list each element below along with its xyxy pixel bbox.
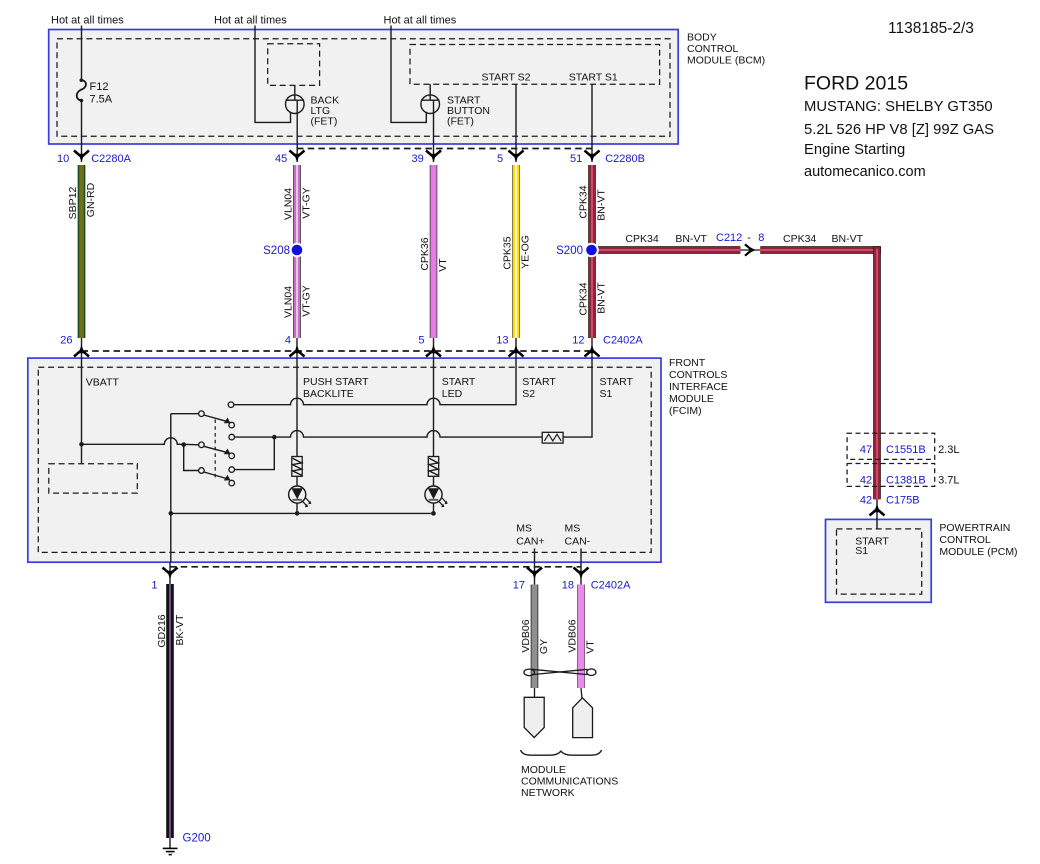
wire resistor to START S1 pin [563,358,592,437]
wire fuse output to pin 10 [81,101,83,162]
contact L-branch circle [229,467,235,473]
BCM START S2/S1 inner dashed box [410,45,660,85]
svg-text:1: 1 [151,580,157,592]
wire LED return bus [171,512,434,514]
pin 18 C2402A [562,562,631,591]
wire START S2 inside BCM [515,84,517,162]
svg-text:F12: F12 [90,81,109,93]
contact S2 target circle [229,453,235,459]
svg-text:C2402A: C2402A [603,335,643,347]
wire hot feed 2 drop [255,26,291,123]
svg-text:Hot at all times: Hot at all times [214,15,287,27]
wire CPK34 BN-VT vertical right side to PCM [873,246,881,499]
svg-text:8: 8 [758,232,764,244]
svg-text:26: 26 [60,335,72,347]
svg-text:automecanico.com: automecanico.com [804,164,926,180]
svg-text:GY: GY [538,639,550,654]
pin 5 FCIM [418,335,441,359]
svg-text:(FET): (FET) [447,115,474,127]
BACK LTG inner dashed box [268,44,320,86]
svg-text:S1: S1 [855,545,868,557]
pin 4 [285,335,305,359]
svg-text:INTERFACE: INTERFACE [669,381,728,393]
svg-text:VT: VT [585,640,597,654]
svg-text:START S1: START S1 [569,72,618,84]
svg-text:4: 4 [285,335,291,347]
svg-text:BN-VT: BN-VT [596,189,608,221]
svg-text:BODY: BODY [687,32,717,44]
svg-text:18: 18 [562,580,574,592]
svg-text:CAN-: CAN- [565,535,591,547]
terminal CAN- [573,698,593,738]
svg-text:42: 42 [860,475,872,487]
wire VDB06 GY [531,585,539,689]
pin 26 [60,335,89,359]
svg-text:13: 13 [496,335,508,347]
connector dashed line C2280B [297,148,592,150]
pin 42 C175B arrow into PCM [870,499,885,529]
wire line A to START S2 [234,358,516,405]
module PCM box [826,519,932,602]
LED BACKLITE [289,486,312,507]
pin 10 C2280A [57,151,132,166]
wire VBATT horizontal to switch pivots [82,438,199,445]
svg-text:VDB06: VDB06 [567,619,579,652]
label START S1 inside PCM [855,536,889,558]
switch gang dashed link [214,419,216,480]
label MS CAN- [565,522,591,547]
svg-text:42: 42 [860,495,872,507]
connector C212 pin 8 [716,232,764,256]
wire SBP12 GN-RD [78,165,86,338]
label START S2 FCIM [522,376,556,400]
terminal CAN+ [524,697,544,737]
svg-text:MODULE: MODULE [669,393,714,405]
label BACK LTG (FET) [311,95,340,128]
wire switch 1 feed horizontal [171,413,199,415]
connector dashed box C1551B 2.3L [847,433,935,459]
svg-text:POWERTRAIN: POWERTRAIN [939,522,1010,534]
svg-text:S2: S2 [522,388,535,400]
svg-text:CPK34: CPK34 [783,233,816,245]
svg-text:MODULE (PCM): MODULE (PCM) [939,546,1017,558]
pin 39 [412,151,442,166]
module FCIM box [28,358,661,562]
svg-text:47: 47 [860,444,872,456]
resistor START LED [428,457,438,477]
svg-text:COMMUNICATIONS: COMMUNICATIONS [521,776,618,788]
wire resistor to LED START [433,476,435,513]
svg-text:MUSTANG: SHELBY GT350: MUSTANG: SHELBY GT350 [804,99,993,115]
svg-text:7.5A: 7.5A [90,94,113,106]
svg-text:2.3L: 2.3L [938,444,959,456]
svg-text:45: 45 [275,153,287,165]
svg-text:START S2: START S2 [482,72,531,84]
wire CPK36 VT [430,165,438,338]
svg-text:MODULE (BCM): MODULE (BCM) [687,55,765,67]
connector dashed line C2402A bottom [170,566,581,568]
pin 1 [151,562,177,591]
wire pin1 column with switch 1 feed [170,414,172,563]
svg-text:5: 5 [418,335,424,347]
pin 12 C2402A [572,335,643,359]
wire PUSH START BACKLITE vertical [296,358,298,457]
wire START S1 inside BCM [591,84,593,162]
svg-text:C2402A: C2402A [591,580,631,592]
svg-text:NETWORK: NETWORK [521,787,575,799]
contact S1 target circle [229,422,235,428]
switch S1 blade [204,415,231,423]
node LED BACKLITE to bus [295,511,300,516]
wire stub CAN- to terminal [581,688,582,699]
svg-text:VT: VT [437,258,449,272]
label MODULE COMMUNICATIONS NETWORK [521,764,618,799]
ground G200 symbol [163,848,178,854]
wire stub CAN+ to terminal [534,688,536,697]
svg-text:CPK34: CPK34 [625,233,658,245]
svg-text:CPK36: CPK36 [419,237,431,270]
label MS CAN+ [516,522,544,547]
label PUSH START BACKLITE [303,376,369,400]
svg-text:39: 39 [412,153,424,165]
svg-text:C2280A: C2280A [91,153,131,165]
label F12 7.5A [90,81,113,105]
svg-text:BN-VT: BN-VT [596,282,608,314]
svg-text:S208: S208 [263,245,290,257]
svg-text:MODULE: MODULE [521,764,566,776]
svg-text:51: 51 [570,153,582,165]
label FRONT CONTROLS INTERFACE MODULE (FCIM) [669,357,728,417]
wire MS CAN- drop [580,549,582,563]
label BODY CONTROL MODULE (BCM) [687,32,765,67]
switch S2 pivot contact [199,442,205,448]
svg-text:MS: MS [516,522,532,534]
svg-text:5: 5 [497,153,503,165]
svg-text:YE-OG: YE-OG [520,235,532,269]
svg-text:MS: MS [565,522,581,534]
svg-text:BN-VT: BN-VT [675,233,707,245]
wire VBATT vertical [81,358,83,464]
svg-text:CONTROL: CONTROL [687,43,738,55]
svg-text:G200: G200 [183,833,211,845]
pin 13 [496,335,523,359]
svg-text:Engine Starting: Engine Starting [804,142,905,158]
svg-text:10: 10 [57,153,69,165]
svg-text:VT-GY: VT-GY [301,285,313,317]
pin 45 [275,151,305,166]
pin 5 [497,151,524,166]
transistor BACK LTG FET [286,85,305,162]
svg-text:VT-GY: VT-GY [301,187,313,219]
wire line B to resistor and START S1 [235,431,543,438]
label POWERTRAIN CONTROL MODULE (PCM) [939,522,1017,558]
resistor START S1 horizontal [542,432,563,443]
svg-text:(FET): (FET) [311,115,338,127]
transistor START BUTTON FET [421,84,440,162]
svg-text:VDB06: VDB06 [520,619,532,652]
svg-text:START: START [442,376,476,388]
svg-text:(FCIM): (FCIM) [669,405,702,417]
wire CPK34 BN-VT vertical upper [588,165,596,338]
brace module communications network [521,750,602,755]
svg-text:GN-RD: GN-RD [85,182,97,217]
module BCM box [49,30,679,145]
svg-text:Hot at all times: Hot at all times [384,15,457,27]
svg-text:FORD 2015: FORD 2015 [804,72,908,94]
LED START [425,486,448,507]
svg-text:17: 17 [513,580,525,592]
wire CPK35 YE-OG [512,165,520,338]
svg-text:PUSH START: PUSH START [303,376,369,388]
svg-text:BK-VT: BK-VT [174,614,186,646]
wire hot feed 1 drop [81,26,83,81]
wire resistor to LED BACKLITE [296,476,298,513]
pin 47 C1551B labels [860,444,960,456]
node LED START to bus [431,511,436,516]
svg-text:BACKLITE: BACKLITE [303,388,354,400]
wire to switch 3 pivot [184,445,199,471]
wire VLN04 VT-GY [293,165,301,338]
wire VDB06 VT [577,585,585,689]
svg-text:START: START [600,376,634,388]
wire L-branch [235,437,275,470]
svg-text:-: - [747,232,751,244]
node bus to pin1 column [169,511,174,516]
svg-text:GD216: GD216 [156,614,168,647]
svg-text:S1: S1 [600,388,613,400]
svg-text:S200: S200 [556,245,583,257]
pin 42 C1381B labels [860,475,960,487]
fuse F12 [77,80,86,100]
pin 42 C175B labels [860,495,920,507]
svg-text:VLN04: VLN04 [283,286,295,318]
connector dashed box C1381B 3.7L [847,464,935,487]
node S200 [556,243,599,258]
label START S1 FCIM [600,376,634,400]
switch S1 pivot contact [199,411,205,417]
wire hot feed 3 drop [391,26,426,123]
pin 51 C2280B [570,151,645,166]
contact line B circle [229,434,235,440]
svg-text:CPK34: CPK34 [578,282,590,315]
contact line A circle [228,402,234,408]
svg-text:C175B: C175B [886,495,920,507]
wire CPK34 BN-VT horizontal segment A [592,246,740,254]
twisted pair symbol [524,669,596,676]
svg-text:CONTROL: CONTROL [939,534,990,546]
switch S3 blade [204,472,231,481]
wire START LED vertical [433,358,435,457]
pin 17 [513,562,542,591]
svg-text:BN-VT: BN-VT [832,233,864,245]
FCIM small dashed box [49,464,138,493]
node S208 [263,243,304,258]
svg-text:C1551B: C1551B [886,444,926,456]
svg-text:SBP12: SBP12 [67,187,79,220]
connector dashed line C2402A top [82,350,593,352]
wire MS CAN+ drop [534,549,536,563]
contact S3 target circle [229,480,235,486]
switch S3 pivot contact [199,468,205,474]
node VBATT junction [79,442,84,447]
svg-text:5.2L 526 HP V8 [Z] 99Z GAS: 5.2L 526 HP V8 [Z] 99Z GAS [804,122,994,138]
svg-text:VLN04: VLN04 [283,188,295,220]
svg-text:CONTROLS: CONTROLS [669,369,727,381]
label START BUTTON (FET) [447,95,490,128]
svg-text:START: START [522,376,556,388]
svg-text:VBATT: VBATT [86,376,120,388]
resistor BACKLITE [292,457,302,477]
svg-text:1138185-2/3: 1138185-2/3 [888,20,974,37]
svg-text:C1381B: C1381B [886,475,926,487]
wire GD216 BK-VT [166,584,174,838]
svg-text:Hot at all times: Hot at all times [51,15,124,27]
svg-text:3.7L: 3.7L [938,475,959,487]
svg-text:12: 12 [572,335,584,347]
label START LED [442,376,476,400]
wire CPK34 BN-VT horizontal segment B [760,246,881,254]
svg-text:CPK35: CPK35 [502,236,514,269]
wire GD216 tail to ground [169,838,171,848]
svg-text:FRONT: FRONT [669,357,706,369]
node line B junction [272,435,277,440]
svg-text:LED: LED [442,388,463,400]
svg-text:C212: C212 [716,232,742,244]
node switch feed junction [181,442,186,447]
switch S2 blade [204,446,231,454]
svg-text:CAN+: CAN+ [516,535,544,547]
svg-text:C2280B: C2280B [605,153,645,165]
svg-text:CPK34: CPK34 [578,185,590,218]
